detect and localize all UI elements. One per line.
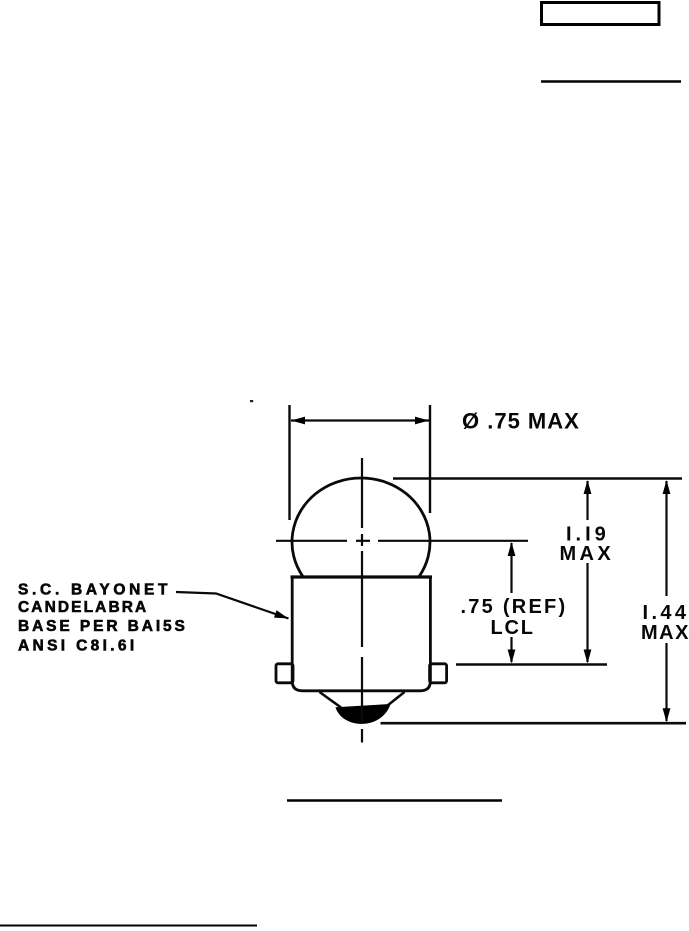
header rule [541, 80, 681, 83]
svg-text:MAX: MAX [560, 543, 615, 565]
insulator cone left edge [320, 692, 342, 708]
svg-text:ANSI C8I.6I: ANSI C8I.6I [18, 637, 138, 654]
insulator cone right edge [388, 692, 405, 706]
svg-text:I.44: I.44 [643, 602, 689, 624]
bulb top extension line [393, 477, 682, 479]
svg-text:MAX: MAX [641, 622, 689, 644]
solder contact tip (filled) [336, 704, 391, 724]
dim 1.44 MAX vertical with arrows [665, 481, 667, 721]
right bayonet pin [430, 664, 447, 683]
diameter extension line right [429, 405, 431, 513]
tip extension line [381, 722, 687, 725]
svg-text:S.C. BAYONET: S.C. BAYONET [18, 582, 171, 599]
dim 1.19 MAX vertical with arrows [586, 481, 588, 662]
horizontal centerline (dash-dot) [276, 540, 528, 542]
stray speck [250, 400, 253, 402]
diameter dimension line with arrowheads [291, 419, 429, 421]
svg-text:LCL: LCL [491, 617, 535, 639]
vertical centerline (dash-dot) [361, 458, 363, 743]
bulb glass envelope [292, 478, 430, 577]
pin plane extension line [456, 663, 607, 666]
leader line from note to base [176, 592, 289, 619]
title block box (top right) [542, 3, 660, 25]
base shell sides and bottom [292, 577, 430, 691]
footnote rule [0, 925, 257, 927]
svg-text:Ø .75 MAX: Ø .75 MAX [462, 409, 580, 434]
dim .75 LCL vertical with arrows [510, 543, 512, 662]
figure rule [287, 799, 502, 802]
svg-text:.75 (REF): .75 (REF) [461, 596, 568, 618]
svg-text:BASE PER BAI5S: BASE PER BAI5S [18, 618, 188, 635]
base shell top edge [291, 575, 433, 578]
diameter extension line left [288, 405, 290, 520]
left bayonet pin [276, 664, 293, 683]
svg-text:CANDELABRA: CANDELABRA [18, 599, 148, 616]
